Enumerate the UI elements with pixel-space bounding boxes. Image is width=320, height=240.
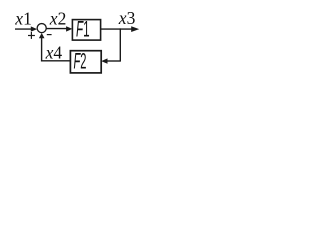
svg-text:F2: F2 <box>74 49 87 74</box>
svg-text:x2: x2 <box>49 9 67 29</box>
svg-text:x1: x1 <box>14 9 32 29</box>
svg-text:x4: x4 <box>45 43 63 63</box>
svg-text:x3: x3 <box>118 8 136 28</box>
svg-text:F1: F1 <box>76 16 90 41</box>
